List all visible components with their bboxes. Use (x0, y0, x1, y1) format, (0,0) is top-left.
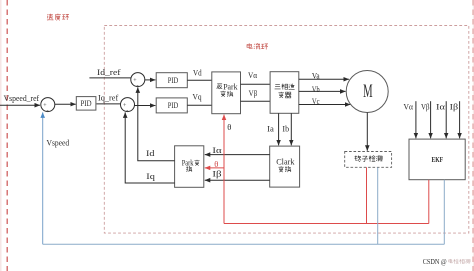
wire Vbeta invPark to inverter (241, 100, 271, 102)
svg-text:Iβ: Iβ (212, 169, 221, 179)
PID3 q-axis PID block (156, 98, 187, 113)
rotor detection block 转子检测 (dashed) (345, 152, 392, 168)
svg-text:Ia: Ia (267, 124, 274, 134)
svg-text:Iq_ref: Iq_ref (98, 93, 118, 103)
wire PID1 to C2 (97, 103, 121, 105)
PID1 speed PID block (76, 97, 96, 111)
svg-text:Ib: Ib (282, 124, 289, 134)
wire Ib inverter to Clark (290, 113, 292, 145)
svg-text:Vα: Vα (248, 70, 258, 80)
svg-text:Iβ: Iβ (450, 102, 459, 112)
svg-text:Park: Park (223, 82, 237, 91)
wire Ibeta Clark to Park (205, 179, 270, 181)
current-loop label 电流环 (247, 43, 268, 49)
Clark transform block Clark变换 (270, 146, 300, 187)
wire motor to rotor-detect (366, 113, 368, 151)
motor M (346, 71, 388, 113)
svg-text:Vb: Vb (312, 84, 320, 94)
wire C3 to PID2 (145, 79, 156, 81)
svg-text:PID: PID (81, 98, 92, 108)
wire Iq Park to C2 (125, 112, 174, 183)
EKF input wire Ialpha (445, 101, 447, 138)
speed-loop label 速度环 (47, 14, 69, 21)
wire Va inverter to motor (299, 78, 349, 80)
svg-text:PID: PID (168, 75, 179, 85)
red wire EKF down (428, 180, 430, 224)
EKF input wire Valpha (415, 101, 417, 138)
svg-text:Vβ: Vβ (421, 102, 430, 112)
svg-text:Id_ref: Id_ref (97, 67, 121, 77)
svg-text:M: M (363, 81, 373, 102)
three-phase inverter block 三相逆变器 (270, 72, 299, 114)
svg-text:Vq: Vq (193, 92, 203, 102)
red bus horizontal (224, 223, 429, 225)
EKF input wire Vbeta (430, 101, 432, 138)
wire Vc inverter to motor (299, 104, 351, 106)
svg-text:Vα: Vα (404, 102, 414, 112)
svg-text:Vc: Vc (312, 96, 320, 106)
inverse Park block 反Park变换 (212, 72, 241, 114)
svg-text:Vspeed: Vspeed (47, 138, 70, 148)
wire C1 to PID1 (55, 103, 76, 105)
svg-text:Id: Id (146, 148, 155, 158)
summing junction C3 (131, 73, 145, 90)
blue speed bus horizontal (43, 243, 445, 245)
page margin tint right (473, 0, 474, 271)
svg-text:θ: θ (227, 122, 231, 132)
svg-text:PID: PID (168, 100, 179, 110)
wire Vd PID2 to invPark (187, 79, 212, 81)
blue wire rotor-detect down (377, 167, 379, 244)
page margin tint left (0, 0, 2, 271)
svg-text:Iq: Iq (146, 171, 155, 181)
svg-text:Iα: Iα (212, 145, 222, 155)
wire Vq PID3 to invPark (187, 104, 212, 106)
Park transform block Park变换 (175, 146, 204, 188)
svg-text:Iα: Iα (436, 102, 446, 112)
blue wire up to C1 (42, 112, 44, 244)
summing junction C2 (121, 98, 135, 115)
svg-text:Park: Park (182, 158, 194, 167)
svg-text:Clark: Clark (276, 157, 295, 167)
svg-text:EKF: EKF (432, 155, 444, 164)
svg-text:Vspeed_ref: Vspeed_ref (4, 93, 40, 103)
wire Vspeed_ref input (0, 104, 40, 106)
wire Vb inverter to motor (299, 90, 346, 92)
svg-text:Va: Va (312, 71, 320, 81)
svg-text:θ: θ (214, 159, 218, 169)
wire Id_ref input (89, 77, 130, 79)
EKF input wire Ibeta (459, 101, 461, 138)
wire C2 to PID3 (135, 105, 156, 107)
EKF block (409, 139, 465, 180)
current-loop dashed box 电流环 (104, 26, 469, 234)
wire Ialpha Clark to Park (205, 154, 270, 156)
wire Valpha invPark to inverter (241, 83, 271, 85)
summing junction C1 (41, 98, 55, 115)
wire Ia inverter to Clark (278, 113, 280, 145)
svg-text:CSDN @: CSDN @ (423, 259, 447, 266)
PID2 d-axis PID block (156, 73, 187, 88)
svg-text:Vβ: Vβ (249, 88, 258, 98)
watermark username glyph blur (449, 259, 471, 264)
svg-text:Vd: Vd (193, 68, 202, 78)
red theta branch to Park (205, 167, 224, 169)
wire Id Park to C3 (138, 87, 175, 160)
red wire rotor-detect down (366, 167, 368, 223)
red theta bus vertical (223, 115, 225, 224)
blue wire EKF down (443, 180, 445, 245)
